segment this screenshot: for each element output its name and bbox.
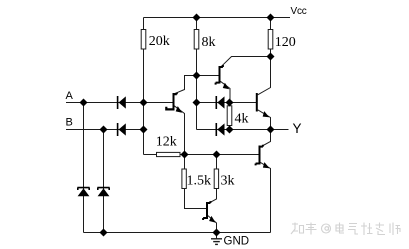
svg-text:Y: Y <box>293 121 302 136</box>
svg-text:8k: 8k <box>202 35 216 50</box>
svg-text:B: B <box>66 117 73 129</box>
svg-text:A: A <box>66 90 74 102</box>
svg-text:3k: 3k <box>221 173 235 188</box>
svg-text:GND: GND <box>224 236 250 248</box>
svg-text:Vcc: Vcc <box>291 6 307 17</box>
svg-text:4k: 4k <box>235 112 249 127</box>
svg-text:20k: 20k <box>149 34 170 49</box>
svg-text:120: 120 <box>275 35 296 50</box>
svg-text:12k: 12k <box>156 135 177 150</box>
svg-text:1.5k: 1.5k <box>187 173 212 188</box>
